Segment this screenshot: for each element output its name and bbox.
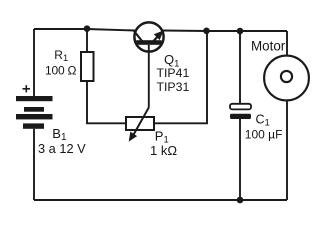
potentiometer P1 wiper arrow <box>129 108 149 142</box>
svg-text:TIP31: TIP31 <box>157 80 190 94</box>
wire motor bottom lead to bottom rail <box>286 100 288 200</box>
svg-text:C1: C1 <box>256 113 270 129</box>
svg-text:100 µF: 100 µF <box>245 128 283 142</box>
resistor R1 <box>81 52 94 81</box>
svg-text:TIP41: TIP41 <box>157 66 190 80</box>
wire R1 top lead <box>86 29 88 52</box>
label C1 <box>256 113 270 129</box>
svg-text:Motor: Motor <box>251 39 286 54</box>
label B1 <box>52 126 67 143</box>
transistor Q1 <box>134 22 164 51</box>
label Q1 type TIP41 <box>157 66 190 80</box>
node junction top of C1 branch <box>237 28 244 35</box>
battery B1 <box>16 96 53 129</box>
label P1 value 1 kohm <box>150 143 177 158</box>
wire left rail (top corner down to battery) <box>33 29 35 96</box>
label R1 value 100 ohm <box>45 64 77 78</box>
wire top rail right (transistor to motor corner) <box>163 30 287 33</box>
node junction bottom of C1 <box>237 197 244 204</box>
svg-text:R1: R1 <box>54 48 68 63</box>
wire R1 bottom lead to P1 left lead <box>87 81 126 123</box>
label C1 value 100 uF <box>245 128 283 142</box>
potentiometer P1 body <box>126 117 154 130</box>
node junction top of R1 <box>84 25 91 32</box>
node junction top of P1 branch <box>203 28 210 35</box>
label P1 <box>155 128 169 145</box>
wire battery negative down to bottom rail <box>33 129 35 200</box>
capacitor C1 <box>230 104 251 119</box>
wire P1 right lead up to top rail <box>154 31 207 123</box>
wire motor top lead from top rail <box>286 31 288 56</box>
wire Q1 base lead down to P1 wiper <box>148 45 150 108</box>
battery plus sign <box>23 85 31 92</box>
motor M1 <box>264 56 309 101</box>
wire bottom rail <box>34 199 287 201</box>
label Motor <box>251 39 286 54</box>
svg-text:3 a 12 V: 3 a 12 V <box>38 141 86 156</box>
svg-text:100 Ω: 100 Ω <box>45 64 77 78</box>
label Q1 <box>164 52 179 70</box>
label B1 value 3 a 12 V <box>38 141 86 156</box>
wire C1 bottom lead to bottom rail <box>239 119 241 200</box>
wire C1 top lead <box>239 31 241 104</box>
svg-text:1 kΩ: 1 kΩ <box>150 143 177 158</box>
label Q1 type TIP31 <box>157 80 190 94</box>
wire top rail left (battery+ to transistor) <box>34 29 135 31</box>
label R1 <box>54 48 68 63</box>
